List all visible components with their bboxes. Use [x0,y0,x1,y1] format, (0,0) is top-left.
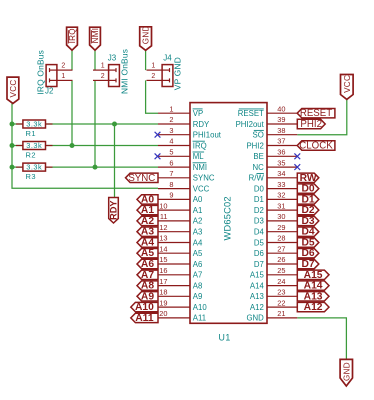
svg-text:GND: GND [246,314,264,323]
svg-text:1: 1 [169,104,173,113]
svg-text:3: 3 [169,126,173,135]
svg-text:A14: A14 [304,281,323,292]
svg-text:D4: D4 [254,228,265,237]
svg-text:A0: A0 [141,194,154,205]
svg-text:39: 39 [277,115,285,124]
svg-text:12: 12 [159,223,167,232]
svg-text:1: 1 [101,63,105,70]
svg-text:R/W: R/W [249,174,265,183]
svg-text:NMI OnBus: NMI OnBus [120,49,130,94]
svg-text:15: 15 [159,255,167,264]
svg-text:A11: A11 [135,313,154,324]
svg-text:D4: D4 [302,227,315,238]
svg-text:A0: A0 [193,195,203,204]
svg-text:A14: A14 [250,281,265,290]
svg-text:A7: A7 [141,270,154,281]
svg-text:IRQ: IRQ [193,141,207,150]
svg-text:32: 32 [277,191,285,200]
svg-text:19: 19 [159,298,167,307]
svg-text:A12: A12 [304,302,323,313]
svg-text:D1: D1 [302,194,315,205]
svg-text:2: 2 [151,73,155,80]
svg-text:VP: VP [193,109,203,118]
svg-text:11: 11 [160,212,168,221]
svg-text:D1: D1 [254,195,264,204]
svg-text:A4: A4 [141,238,154,249]
svg-text:38: 38 [277,126,285,135]
svg-text:A1: A1 [193,206,203,215]
svg-text:28: 28 [277,234,285,243]
svg-text:A11: A11 [193,314,206,323]
svg-text:VP GND: VP GND [173,57,183,90]
svg-text:WD65C02: WD65C02 [223,196,233,240]
svg-text:A13: A13 [250,292,264,301]
svg-text:A10: A10 [193,303,208,312]
svg-text:R1: R1 [26,129,37,138]
svg-text:4: 4 [169,137,173,146]
svg-text:A9: A9 [193,292,203,301]
svg-text:A3: A3 [141,227,154,238]
svg-text:A15: A15 [304,270,323,281]
svg-text:13: 13 [159,234,167,243]
svg-text:D2: D2 [302,205,315,216]
svg-text:PHI2out: PHI2out [236,120,265,129]
svg-text:23: 23 [277,288,285,297]
svg-text:20: 20 [159,309,167,318]
svg-text:10: 10 [159,201,167,210]
svg-text:D0: D0 [254,184,265,193]
svg-text:D7: D7 [302,259,315,270]
svg-text:18: 18 [159,288,167,297]
svg-text:RDY: RDY [109,200,119,220]
svg-text:A7: A7 [193,271,203,280]
svg-text:ML: ML [193,152,204,161]
svg-text:A15: A15 [250,271,265,280]
svg-text:U1: U1 [219,332,231,342]
svg-text:A10: A10 [135,302,154,313]
svg-text:30: 30 [277,212,285,221]
svg-text:A5: A5 [193,249,203,258]
svg-text:A9: A9 [141,291,154,302]
svg-text:J2: J2 [45,87,54,96]
svg-text:A8: A8 [141,281,154,292]
svg-text:VCC: VCC [193,184,210,193]
svg-text:PHI2: PHI2 [300,119,322,130]
svg-text:31: 31 [277,201,285,210]
svg-text:8: 8 [169,180,173,189]
svg-text:R2: R2 [26,150,37,159]
svg-text:SYNC: SYNC [128,173,155,184]
svg-text:1: 1 [151,63,155,70]
svg-text:1: 1 [61,73,65,80]
svg-text:D3: D3 [254,217,264,226]
svg-text:3.3k: 3.3k [26,120,42,129]
svg-text:R3: R3 [26,172,37,181]
svg-text:34: 34 [277,169,285,178]
svg-text:NC: NC [253,163,265,172]
svg-text:RESET: RESET [300,108,332,119]
svg-text:A8: A8 [193,281,203,290]
svg-text:J3: J3 [108,53,117,62]
svg-text:A2: A2 [193,217,203,226]
svg-text:6: 6 [169,158,173,167]
svg-text:2: 2 [101,73,105,80]
svg-text:37: 37 [277,137,285,146]
svg-text:5: 5 [169,148,173,157]
svg-text:40: 40 [277,104,285,113]
svg-text:16: 16 [159,266,167,275]
svg-text:17: 17 [159,277,167,286]
svg-text:29: 29 [277,223,285,232]
svg-text:14: 14 [159,244,167,253]
svg-text:A4: A4 [193,238,203,247]
svg-text:A1: A1 [141,205,154,216]
svg-text:A3: A3 [193,228,203,237]
svg-text:A6: A6 [141,259,154,270]
svg-text:VCC: VCC [9,80,18,98]
svg-text:GND: GND [342,362,351,381]
svg-text:D5: D5 [302,238,315,249]
svg-text:7: 7 [169,169,173,178]
svg-text:2: 2 [169,115,173,124]
svg-text:21: 21 [277,309,285,318]
svg-text:BE: BE [253,152,263,161]
svg-text:3.3k: 3.3k [26,163,42,172]
svg-text:D7: D7 [254,260,264,269]
svg-text:IRQ OnBus: IRQ OnBus [35,50,45,95]
svg-text:NMI: NMI [91,28,100,44]
svg-text:PHI1out: PHI1out [193,131,222,140]
svg-text:IRQ: IRQ [68,28,77,43]
svg-text:GND: GND [142,25,151,44]
svg-text:CLOCK: CLOCK [299,141,333,152]
svg-text:A2: A2 [141,216,154,227]
svg-text:RW: RW [300,173,317,184]
svg-text:26: 26 [277,255,285,264]
svg-text:35: 35 [277,158,285,167]
svg-text:D5: D5 [254,238,265,247]
svg-text:A12: A12 [250,303,264,312]
svg-text:D6: D6 [302,248,315,259]
svg-text:SYNC: SYNC [193,174,215,183]
svg-text:D6: D6 [254,249,264,258]
svg-text:25: 25 [277,266,285,275]
svg-text:A13: A13 [304,291,323,302]
svg-text:J4: J4 [163,54,172,63]
svg-text:PHI2: PHI2 [246,141,263,150]
svg-text:A6: A6 [193,260,203,269]
svg-text:RDY: RDY [193,120,210,129]
svg-text:36: 36 [277,148,285,157]
svg-text:24: 24 [277,277,285,286]
svg-text:27: 27 [277,244,285,253]
svg-text:A5: A5 [141,248,154,259]
svg-text:NMI: NMI [193,163,207,172]
svg-text:3.3k: 3.3k [26,141,42,150]
svg-text:9: 9 [169,191,173,200]
svg-text:22: 22 [277,298,285,307]
svg-text:VCC: VCC [343,75,352,93]
svg-text:D3: D3 [302,216,315,227]
svg-text:SO: SO [253,131,264,140]
svg-text:RESET: RESET [238,109,264,118]
svg-text:33: 33 [277,180,285,189]
svg-text:2: 2 [61,63,65,70]
svg-text:D0: D0 [302,184,315,195]
svg-text:D2: D2 [254,206,264,215]
